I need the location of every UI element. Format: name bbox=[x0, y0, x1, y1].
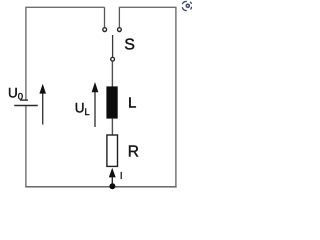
voltage arrow UL bbox=[92, 82, 99, 127]
wire: top left segment bbox=[26, 7, 105, 100]
switch S lever bbox=[112, 35, 114, 57]
junction node dot bbox=[109, 183, 115, 189]
svg-text:U0: U0 bbox=[8, 85, 23, 102]
battery U0 short plate bbox=[20, 99, 28, 101]
wire: bottom bbox=[25, 186, 176, 188]
wire: left side lower (battery to bottom corner) bbox=[25, 106, 27, 187]
inductor L bbox=[106, 86, 117, 118]
switch S left contact bbox=[103, 28, 107, 32]
UI icon (dashed circle with ring) top-right bbox=[182, 1, 191, 10]
battery U0 long plate bbox=[14, 105, 38, 107]
svg-text:UL: UL bbox=[75, 101, 90, 118]
voltage arrow U0 bbox=[39, 84, 46, 125]
resistor R bbox=[107, 135, 118, 166]
svg-text:L: L bbox=[128, 95, 136, 112]
svg-text:S: S bbox=[124, 37, 135, 54]
switch S pole contact bbox=[111, 57, 115, 61]
current arrow I bbox=[109, 168, 116, 184]
wire: inductor to resistor bbox=[111, 119, 113, 135]
wire: stub to right switch contact bbox=[118, 7, 120, 27]
wire: pole to inductor bbox=[111, 61, 113, 86]
svg-text:R: R bbox=[128, 143, 139, 160]
switch S right contact bbox=[118, 28, 122, 32]
svg-text:I: I bbox=[120, 170, 123, 182]
wire: top right + right side bbox=[119, 7, 176, 187]
wire: stub to left switch contact bbox=[104, 7, 106, 27]
